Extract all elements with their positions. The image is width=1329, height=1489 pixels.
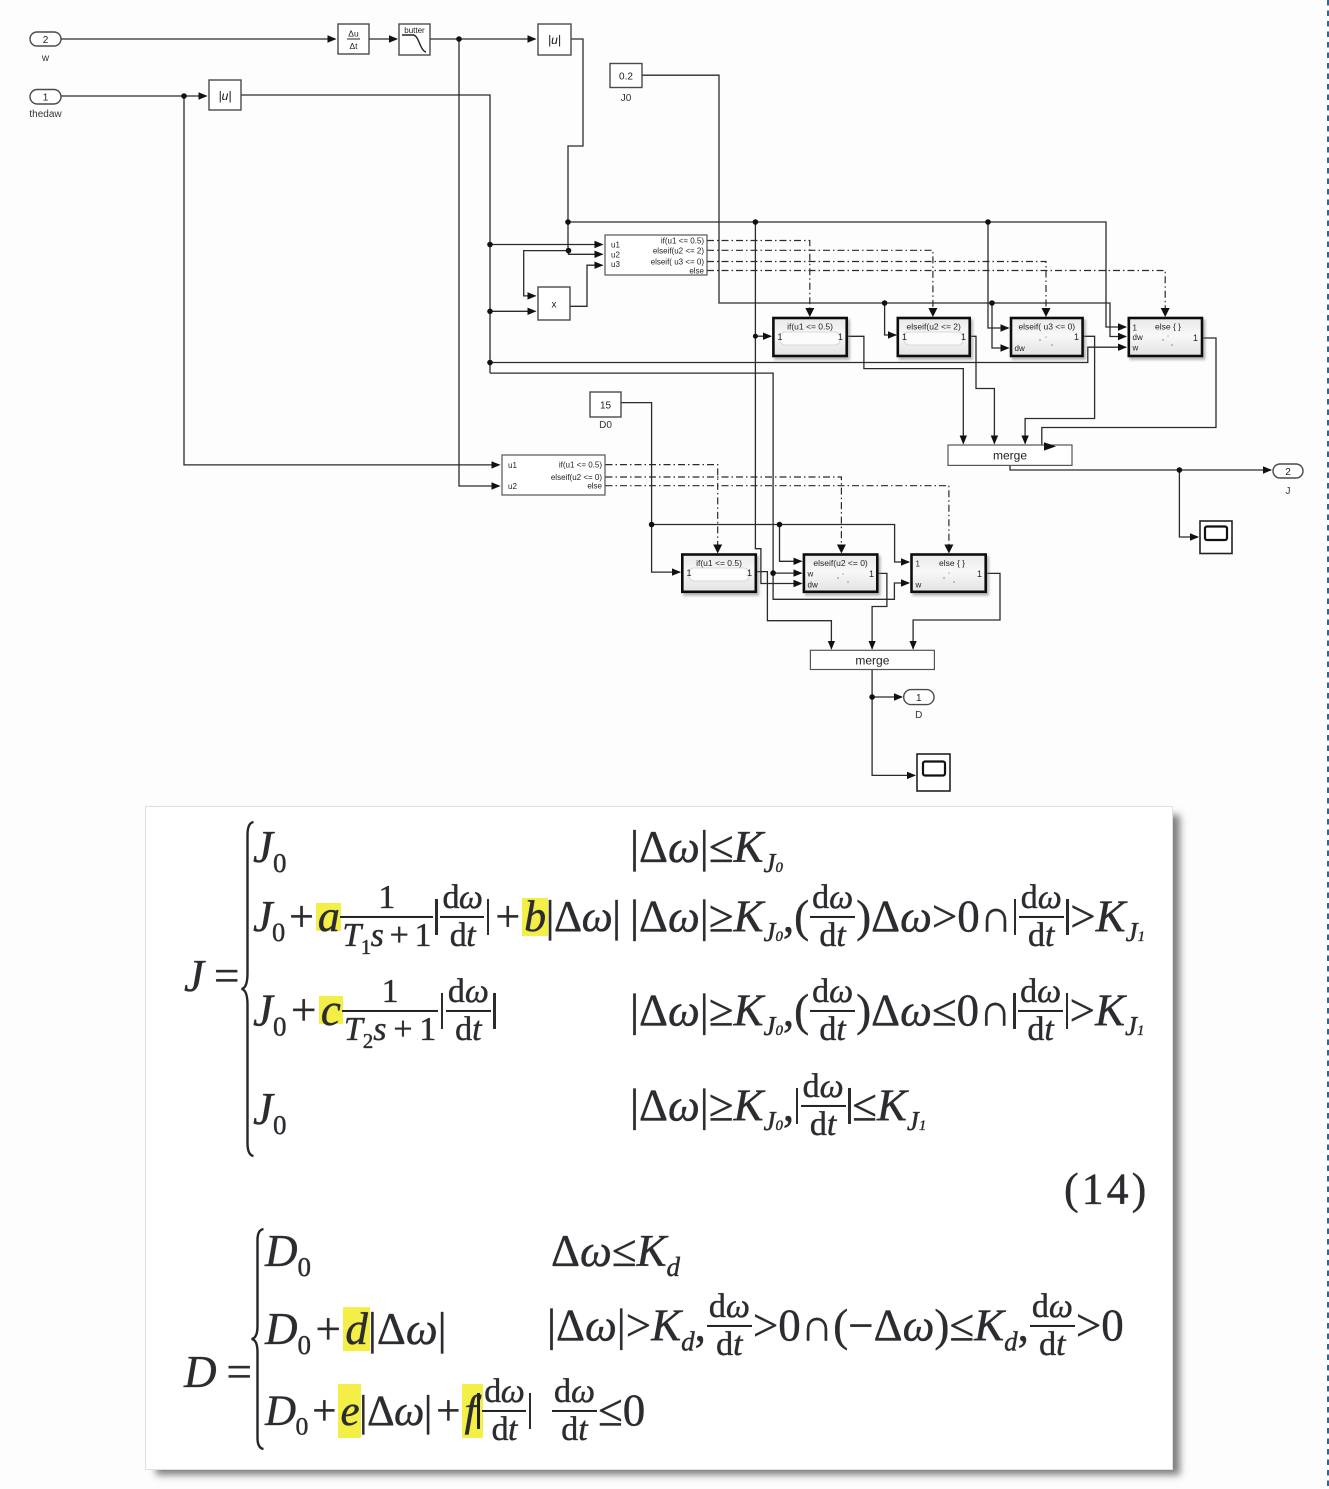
svg-text:1: 1 xyxy=(869,569,874,579)
svg-text:thedaw: thedaw xyxy=(29,109,62,120)
svg-text:Δt: Δt xyxy=(349,41,358,51)
wire merge2 out to port D xyxy=(872,670,902,698)
junction absdaw to u1 xyxy=(487,242,493,248)
J row4 value xyxy=(253,1084,286,1136)
svg-text:|u|: |u| xyxy=(219,89,232,103)
wire w to deriv xyxy=(61,38,336,40)
svg-text:D: D xyxy=(915,710,922,721)
svg-text:w: w xyxy=(41,53,50,64)
junction J output branch xyxy=(1177,467,1183,473)
wire thedaw to abs2 xyxy=(61,95,207,97)
if block 1 xyxy=(605,235,707,276)
equation J brace xyxy=(236,820,260,1158)
wire butter to abs1 xyxy=(430,38,536,40)
dash if1 row4 to else4 xyxy=(707,271,1165,311)
wire A out to merge2 xyxy=(756,572,832,649)
svg-text:dw: dw xyxy=(1015,344,1025,353)
D row1 condition xyxy=(551,1226,680,1278)
svg-text:1: 1 xyxy=(778,332,783,342)
svg-text:elseif(u2 <= 2): elseif(u2 <= 2) xyxy=(907,322,962,332)
arrowhead into B xyxy=(837,545,846,554)
wire butter branch down to if2 u2 xyxy=(459,39,500,486)
arrowhead into A xyxy=(713,545,722,554)
svg-text:butter: butter xyxy=(404,26,425,35)
dash if2 row2 to B xyxy=(606,477,842,546)
svg-text:1: 1 xyxy=(961,332,966,342)
svg-text:if(u1 <= 0.5): if(u1 <= 0.5) xyxy=(559,461,602,470)
action subsystem B bottom xyxy=(804,555,877,592)
arrow into merge1 4th input xyxy=(1044,442,1056,450)
svg-text:J0: J0 xyxy=(621,93,632,104)
svg-text:1: 1 xyxy=(916,560,921,569)
wire abs2 out down xyxy=(241,95,490,373)
svg-text:u3: u3 xyxy=(611,260,620,269)
butterworth filter block xyxy=(399,24,430,55)
junction w-rail to B xyxy=(770,570,776,576)
svg-text:1: 1 xyxy=(1193,333,1198,343)
D row2 value xyxy=(265,1304,447,1356)
scope 2 xyxy=(917,754,950,791)
svg-text:w: w xyxy=(807,570,814,579)
J row3 value xyxy=(253,978,497,1052)
svg-text:|u|: |u| xyxy=(548,33,561,47)
wire product out to if1 u3 xyxy=(570,265,603,306)
action subsystem elseif(u2<=2) xyxy=(898,318,970,356)
wire rail w2 to C w xyxy=(490,373,909,599)
action subsystem else top xyxy=(1129,318,1202,356)
wire branch to scope1 xyxy=(1179,470,1198,537)
dash if1 row2 to action2 xyxy=(707,250,933,310)
wire branch to A input xyxy=(652,525,680,573)
input port 1 thedaw xyxy=(29,90,62,121)
arrowhead into action3 xyxy=(1042,308,1051,317)
action subsystem A bottom xyxy=(682,555,756,592)
wire branch to B input1 xyxy=(780,525,802,562)
wire J0 const down to rail303 xyxy=(642,75,1126,336)
svg-text:J: J xyxy=(1286,486,1291,497)
svg-text:1: 1 xyxy=(687,568,692,578)
svg-text:else { }: else { } xyxy=(939,558,965,568)
merge block 1 xyxy=(948,445,1072,465)
junction absdaw w-rail xyxy=(487,360,493,366)
equation D lhs xyxy=(184,1347,252,1399)
constant D0 xyxy=(590,392,621,431)
wire merge1 out to port J xyxy=(1010,465,1271,470)
wire action2 out to merge1 xyxy=(970,336,995,443)
junction D0 rail to A xyxy=(649,522,655,528)
J row2 condition xyxy=(630,884,1145,958)
junction absdaw to product xyxy=(487,309,493,315)
wire branch to B w xyxy=(773,572,801,574)
junction after butter xyxy=(456,36,462,42)
formula panel xyxy=(146,807,1172,1469)
action subsystem C bottom xyxy=(912,555,986,592)
svg-text:1: 1 xyxy=(747,568,752,578)
J row1 condition xyxy=(630,822,783,874)
arrowhead into action2 xyxy=(928,308,937,317)
svg-text:elseif( u3 <= 0): elseif( u3 <= 0) xyxy=(1018,322,1075,332)
wire C out to merge2 xyxy=(913,573,1000,648)
svg-text:1: 1 xyxy=(1133,324,1138,333)
output port 2 J xyxy=(1273,464,1303,497)
junction D0 rail to B xyxy=(777,522,783,528)
svg-text:else { }: else { } xyxy=(1155,322,1181,332)
D row3 value xyxy=(265,1378,533,1452)
svg-text:1: 1 xyxy=(43,93,49,104)
svg-text:1: 1 xyxy=(977,569,982,579)
simulink diagram xyxy=(0,0,1329,800)
derivative block xyxy=(338,24,369,54)
svg-text:elseif( u3 <= 0): elseif( u3 <= 0) xyxy=(651,258,705,267)
junction abs-dw to u2/product xyxy=(566,248,572,254)
wire B out to merge2 xyxy=(872,573,887,648)
product block x xyxy=(538,287,570,320)
junction D output branch xyxy=(869,694,875,700)
svg-text:u1: u1 xyxy=(508,461,517,470)
dashed control lines from if1 xyxy=(606,241,1166,547)
svg-text:1: 1 xyxy=(902,332,907,342)
wire junction left down to product in1 xyxy=(524,251,569,296)
J row1 value xyxy=(253,822,286,874)
svg-text:D0: D0 xyxy=(599,420,612,431)
svg-text:elseif(u2 <= 0): elseif(u2 <= 0) xyxy=(551,473,602,482)
equation number (14) xyxy=(1064,1165,1149,1216)
svg-text:1: 1 xyxy=(916,693,922,704)
svg-text:elseif(u2 <= 0): elseif(u2 <= 0) xyxy=(813,558,868,568)
action subsystem if(u1<=0.5) top xyxy=(773,318,846,356)
svg-text:Δu: Δu xyxy=(348,29,359,39)
arrowhead into else4 xyxy=(1161,308,1170,317)
svg-text:if(u1 <= 0.5): if(u1 <= 0.5) xyxy=(787,322,833,332)
J row4 condition xyxy=(630,1073,926,1147)
wire D0 const down to rail524 xyxy=(621,403,909,562)
wire branch to product in2 xyxy=(490,310,536,312)
junction action1 input branch xyxy=(753,334,758,339)
D row2 condition xyxy=(547,1293,1124,1367)
J row3 condition xyxy=(630,978,1144,1052)
junction J0 rail to action3 dw xyxy=(989,300,995,306)
wire rail y222 to else4 input1 xyxy=(568,222,1126,327)
wire branch into action1 input xyxy=(755,335,771,337)
junction thedaw branch xyxy=(181,93,187,99)
svg-text:u2: u2 xyxy=(508,482,517,491)
wire branch to action3 dw xyxy=(992,303,1009,348)
junction abs-dw rail xyxy=(565,219,571,225)
constant J0 xyxy=(610,64,642,105)
junction rail222 branch1 xyxy=(753,219,759,225)
wire branch to scope2 xyxy=(872,697,915,775)
J row2 value xyxy=(253,884,620,958)
D row1 value xyxy=(265,1226,311,1278)
arrowhead into action1 xyxy=(805,308,814,317)
dash if1 row3 to action3 xyxy=(707,262,1046,311)
wire junction to if1 u2 xyxy=(569,251,603,255)
svg-text:else: else xyxy=(689,267,704,276)
wire abs1 out to u-rail xyxy=(568,39,583,251)
dash if1 row1 to action1 xyxy=(707,241,810,311)
svg-text:2: 2 xyxy=(43,35,49,46)
svg-text:else: else xyxy=(587,482,602,491)
junction J0 rail to action2 xyxy=(882,300,888,306)
svg-text:u1: u1 xyxy=(611,241,620,250)
wire thedaw branch to if2 u1 xyxy=(184,96,500,465)
D row3 condition xyxy=(551,1378,645,1452)
wire branch to if1 u1 xyxy=(490,244,603,246)
svg-text:1: 1 xyxy=(838,332,843,342)
wire action3 out to merge1 xyxy=(1025,336,1095,443)
svg-text:elseif(u2 <= 2): elseif(u2 <= 2) xyxy=(653,246,704,255)
input port 2 w xyxy=(30,32,61,64)
svg-text:dw: dw xyxy=(808,581,818,590)
action subsystem elseif(u3<=0) xyxy=(1011,318,1083,356)
arrowhead into C xyxy=(944,545,953,554)
svg-text:if(u1 <= 0.5): if(u1 <= 0.5) xyxy=(661,237,704,246)
equation J lhs xyxy=(184,951,239,1003)
abs1 block xyxy=(538,24,571,55)
svg-text:1: 1 xyxy=(1074,332,1079,342)
wire action1 out to merge1 xyxy=(847,336,964,443)
junction rail222 branch2 xyxy=(985,219,991,225)
wire rail w1 to else4 w xyxy=(490,347,1126,362)
svg-text:0.2: 0.2 xyxy=(619,72,633,83)
svg-text:2: 2 xyxy=(1285,467,1291,478)
dash if2 row1 to A xyxy=(606,465,718,546)
output port 1 D xyxy=(904,690,934,721)
wire rail222 branch to action1 and B dw xyxy=(755,222,801,584)
svg-text:15: 15 xyxy=(600,401,612,412)
if block 2 xyxy=(502,455,605,495)
scope 1 xyxy=(1200,521,1232,554)
svg-text:merge: merge xyxy=(993,449,1027,463)
wire deriv to butter xyxy=(369,38,397,40)
blue dashed separator line xyxy=(1327,0,1329,1489)
svg-text:merge: merge xyxy=(855,653,889,667)
wire rail222 branch to action3 input xyxy=(988,222,1009,328)
merge block 2 xyxy=(810,650,934,669)
svg-text:w: w xyxy=(1132,344,1139,353)
abs2 block xyxy=(209,80,241,110)
svg-text:x: x xyxy=(552,300,557,311)
wire branch to action2 input xyxy=(885,303,896,335)
equation D brace xyxy=(246,1227,270,1451)
dash if2 row3 to C xyxy=(606,486,949,546)
wire else4 out to merge1 top xyxy=(1042,338,1216,446)
svg-text:if(u1 <= 0.5): if(u1 <= 0.5) xyxy=(696,558,742,568)
svg-text:u2: u2 xyxy=(611,251,620,260)
svg-text:w: w xyxy=(915,581,922,590)
svg-text:dw: dw xyxy=(1133,333,1143,342)
